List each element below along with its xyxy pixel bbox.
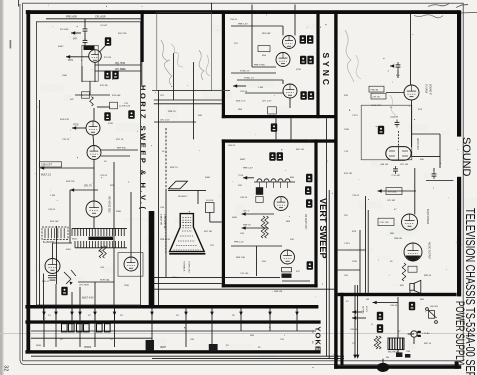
svg-text:R87 10: R87 10 [424, 343, 432, 345]
pencil scribble 2 [171, 44, 183, 67]
wire yoke bus b [31, 337, 152, 339]
wire left lane vertical [39, 100, 41, 305]
svg-text:R3 2.2M: R3 2.2M [118, 33, 126, 35]
svg-text:MULT: MULT [72, 239, 78, 241]
svg-text:560K: 560K [232, 217, 238, 219]
wire V12 grid [386, 92, 404, 94]
border horiz-sweep right edge upper [141, 10, 144, 62]
wire pwr arrow [373, 302, 387, 304]
svg-text:ON-OFF: ON-OFF [430, 306, 439, 308]
wire to C1 [84, 19, 86, 27]
svg-text:R68 1.8K: R68 1.8K [236, 257, 246, 259]
wire tick above border b [211, 3, 213, 13]
svg-text:PRE 2V: PRE 2V [168, 111, 176, 113]
svg-text:C2 047: C2 047 [100, 25, 108, 27]
label box CPL TN [371, 93, 386, 99]
shield V6 [118, 253, 143, 277]
pencil scribble 6 [356, 55, 361, 79]
svg-text:C35A CPT: C35A CPT [41, 164, 52, 167]
wire V3 cath [101, 155, 130, 157]
svg-text:POS: POS [74, 124, 79, 126]
svg-text:C72 5: C72 5 [352, 115, 359, 117]
wire agc row [426, 180, 453, 182]
svg-text:CPL HOR: CPL HOR [115, 63, 125, 65]
svg-text:CPL TN: CPL TN [373, 96, 381, 98]
wire B+ feed top lane [46, 18, 143, 20]
wire to S1 [282, 26, 284, 35]
wire yoke lower [43, 331, 45, 347]
svg-text:32: 32 [3, 365, 9, 371]
wire audio row [382, 190, 416, 192]
svg-text:C70 100: C70 100 [240, 273, 249, 275]
wire V5 plate feed [53, 242, 73, 244]
wire V3 plate [101, 149, 138, 151]
resistor R41 [377, 336, 381, 349]
wire tick above border c [294, 5, 296, 11]
pencil scribble 1 [161, 40, 172, 85]
svg-text:MULT 2.5: MULT 2.5 [41, 174, 52, 176]
wire out left [40, 167, 94, 169]
svg-text:REF 300: REF 300 [117, 147, 126, 149]
wire yoke drop [269, 309, 271, 332]
wire SR feed [397, 297, 399, 338]
wire C30 down [397, 70, 399, 78]
wire drop d [71, 292, 73, 305]
tube V11 vert output [281, 250, 295, 264]
resistor R2 [90, 97, 94, 107]
wire V1 grid left [66, 56, 89, 58]
HV cap plate [169, 181, 188, 189]
tube V3 horiz osc B [87, 146, 101, 160]
svg-text:4 CPL HOR 2W: 4 CPL HOR 2W [163, 214, 165, 229]
arrow pwr [373, 301, 377, 305]
arrow vert top [243, 176, 247, 180]
sound/power box right upper [457, 10, 461, 136]
svg-text:117VAC: 117VAC [362, 306, 365, 314]
wire tick above border a [251, 5, 253, 11]
svg-text:YOKE: YOKE [314, 327, 323, 352]
svg-text:150K: 150K [62, 75, 68, 77]
test point S6 [308, 91, 314, 99]
wire into yoke [71, 305, 73, 320]
selenium rectifier SR1 [388, 338, 404, 350]
vert box top [222, 139, 336, 142]
arrow yoke drop [70, 312, 74, 316]
wire yoke drop [240, 309, 242, 332]
arrow into AFC [71, 31, 75, 35]
wire bus B [152, 282, 222, 284]
wire drop c [79, 287, 81, 305]
test point S4 [307, 56, 313, 64]
svg-text:C85 40: C85 40 [390, 305, 398, 307]
vert output stack [282, 268, 292, 278]
capacitor C15 block [256, 187, 263, 195]
svg-text:SOUND: SOUND [460, 137, 472, 177]
wire arrow lead [71, 32, 81, 34]
capacitor C16 box [256, 196, 263, 202]
svg-text:PRE 2M: PRE 2M [274, 291, 282, 293]
arrow V1 grid [66, 55, 70, 59]
wire V12 down [411, 100, 413, 147]
tube V5 damper [45, 259, 60, 274]
wire S3 bottom [289, 98, 291, 108]
resistor R5 [99, 246, 103, 258]
svg-text:COIL 1SV: COIL 1SV [380, 222, 390, 224]
width coil L1 box [42, 227, 68, 239]
capacitor C31 [395, 120, 400, 128]
svg-text:HORIZ: HORIZ [84, 347, 92, 349]
wire vert row3 [231, 245, 282, 247]
tube V14 base shading [406, 256, 421, 261]
yoke box top [25, 320, 320, 323]
resistor R1 box [82, 92, 90, 98]
heater stack V5 [48, 276, 57, 281]
svg-text:LL22R C23: LL22R C23 [119, 106, 131, 108]
tube V10 vert osc [274, 197, 288, 211]
pencil scribble 3 [199, 50, 204, 80]
svg-text:6W4: 6W4 [66, 249, 71, 251]
test point M6 [61, 287, 67, 295]
power transformer T2 [377, 363, 389, 372]
svg-text:LTC AC: LTC AC [423, 332, 431, 335]
wire horiz-sweep boundary link [141, 62, 142, 85]
ratio detector transformer T3 [386, 147, 411, 161]
tube V6 HV rectifier [124, 257, 138, 271]
border left-region bottom [25, 305, 318, 309]
picture tube funnel [169, 214, 205, 254]
svg-text:R82 56: R82 56 [424, 275, 432, 277]
wire right lane vertical b [328, 190, 330, 359]
svg-text:CPL 4: CPL 4 [172, 277, 179, 279]
arrow pwr2 [352, 316, 356, 320]
wire drop e [43, 274, 45, 306]
svg-text:220K: 220K [124, 285, 130, 287]
test point S5 [300, 91, 306, 99]
arrow audio row [378, 189, 382, 193]
test point M3 [112, 71, 118, 79]
wire sync vertical b [294, 14, 296, 36]
wire S row3 [237, 79, 283, 81]
svg-text:470K: 470K [296, 69, 302, 71]
vert box right [314, 139, 317, 287]
wire interlock left [408, 333, 414, 335]
resistor R6 [103, 246, 107, 258]
junction bus a [337, 355, 339, 357]
wire yoke lower [114, 331, 116, 347]
svg-text:V1 6AU6: V1 6AU6 [425, 84, 428, 94]
wire S arrow [233, 85, 246, 87]
wire yoke drop [71, 309, 73, 332]
wire yoke drop [185, 309, 187, 332]
svg-text:CPL 1M: CPL 1M [400, 164, 408, 166]
arrow V2 grid [72, 126, 76, 130]
wire audio lead [378, 190, 383, 192]
svg-text:C63 25: C63 25 [240, 197, 248, 199]
svg-text:C31 25: C31 25 [62, 139, 70, 141]
svg-text:60 CY: 60 CY [365, 306, 367, 313]
svg-text:R31 47: R31 47 [42, 281, 50, 283]
capacitor C87 block [396, 352, 402, 357]
svg-text:470K: 470K [108, 123, 114, 125]
wire yoke lower [79, 331, 81, 347]
yoke connector pin 4 [84, 324, 90, 332]
svg-text:HOR CAL: HOR CAL [100, 279, 111, 282]
wire sync feed b [154, 103, 222, 105]
wire exit left a [338, 249, 366, 251]
wire V1 down a [81, 66, 83, 82]
junction bus b [337, 358, 339, 360]
svg-text:DEFL: DEFL [36, 345, 42, 347]
wire spk gnd [409, 290, 411, 296]
wire into yoke [55, 305, 57, 320]
test point T4 [305, 186, 311, 194]
svg-text:CPL V: CPL V [243, 211, 250, 213]
svg-text:VR VERT OUT: VR VERT OUT [304, 214, 306, 230]
transformer T1 core [89, 237, 114, 240]
wire horiz box vertical c [113, 162, 115, 282]
wire pwr arrow2 [352, 317, 366, 319]
wire SR down [397, 350, 399, 353]
svg-text:C79 5: C79 5 [344, 243, 351, 245]
svg-text:R17 1K: R17 1K [116, 139, 124, 141]
tube V1 horiz AFC [89, 50, 102, 63]
arrow out left [40, 166, 44, 170]
vert box bottom [222, 284, 318, 287]
wire drop b [94, 282, 96, 305]
transformer T1 primary winding [72, 228, 127, 236]
svg-text:27K: 27K [210, 245, 214, 247]
resistor R35 [402, 263, 406, 281]
wire into yoke [43, 305, 45, 320]
svg-text:PRE HOR: PRE HOR [66, 16, 77, 19]
wire gap h1 [154, 121, 196, 123]
power supply divider [338, 293, 457, 296]
tube V2 horiz osc A [86, 121, 100, 135]
svg-text:R14 8.2K: R14 8.2K [60, 119, 70, 121]
wire V1 to test point [100, 46, 106, 52]
wire disc grid [70, 189, 98, 191]
resistor R36 box [408, 266, 417, 272]
wire C32 top [433, 168, 435, 171]
wire funnel left [165, 216, 167, 254]
wire yoke lower [211, 331, 213, 347]
svg-text:PRE 1.5V: PRE 1.5V [243, 168, 253, 170]
wire vert bottom [282, 280, 310, 282]
sync box bottom [222, 115, 336, 118]
resistor R40 [374, 336, 378, 349]
wire V1 down b [94, 71, 96, 82]
svg-text:MULT 6: MULT 6 [170, 167, 178, 169]
wire HV drop [197, 190, 199, 204]
test point S1 [300, 35, 306, 43]
wire yoke drop [151, 309, 153, 332]
wire horiz box vertical [69, 190, 71, 243]
wire V4 to T1 [93, 217, 95, 228]
svg-text:R52 68K: R52 68K [262, 33, 271, 35]
tube V14 audio output [404, 243, 422, 261]
speaker SP1 [410, 280, 421, 293]
svg-text:V8 HORIZ OSC: V8 HORIZ OSC [108, 196, 111, 213]
sound/power box left [334, 10, 337, 368]
wire S row1 [252, 66, 276, 68]
wire B+ a [365, 196, 367, 293]
svg-text:HORIZ OUT: HORIZ OUT [188, 262, 190, 275]
svg-text:CPL TV: CPL TV [84, 185, 92, 187]
handwriting mark 3 [456, 5, 468, 8]
svg-text:6SN7: 6SN7 [240, 159, 246, 161]
vert box left [222, 139, 225, 287]
arrow vert row2 [242, 226, 246, 230]
yoke coil L2 [146, 340, 218, 352]
capacitor C3 box [110, 102, 118, 109]
arrow yoke drop [42, 312, 46, 316]
power supply inner left [340, 293, 343, 365]
wire C1 to C2 [84, 33, 86, 40]
test point S3 [300, 56, 306, 64]
wire yoke drop [94, 309, 96, 332]
arrow pwr3 [352, 310, 356, 314]
wire yoke bus [31, 330, 316, 332]
pencil scribble 4 [206, 55, 210, 76]
svg-text:FOCUS: FOCUS [206, 200, 214, 202]
wire to V5 [52, 243, 54, 258]
svg-text:PRE 1.5V: PRE 1.5V [234, 242, 244, 244]
wire into yoke [114, 305, 116, 320]
arrow disc [70, 188, 74, 192]
wire S3 top [282, 80, 284, 84]
tube V4 horiz output [86, 201, 102, 217]
wire drop a [113, 282, 115, 305]
arrow sync left [233, 84, 237, 88]
sound/power box bottom [334, 365, 461, 369]
wire into yoke [94, 305, 96, 320]
arrow yoke drop [54, 312, 58, 316]
handwriting mark 2 [414, 15, 443, 18]
yoke connector pin 2 [69, 324, 75, 332]
wire to V13 [414, 168, 416, 215]
arrow yoke drop [184, 312, 188, 316]
wire to C3 [97, 106, 110, 108]
wire yoke drop [211, 309, 213, 332]
transformer T1 secondary winding [75, 241, 127, 248]
svg-text:500K: 500K [205, 177, 211, 179]
svg-text:270K: 270K [352, 261, 358, 263]
wire V3 down [93, 160, 95, 168]
wire yoke drop [43, 309, 45, 332]
wire gap vertical b [193, 62, 195, 139]
svg-text:PRE 1.5V: PRE 1.5V [238, 23, 248, 25]
wire V2 grid [72, 127, 86, 129]
wire bus A [152, 276, 280, 278]
yoke connector pin 5 [97, 324, 103, 332]
wire C30 left [390, 65, 394, 67]
svg-text:COL 4M: COL 4M [392, 175, 400, 177]
svg-text:AUDIO OUTPUT: AUDIO OUTPUT [428, 242, 431, 260]
wire det out [411, 155, 440, 157]
wire sound B+ vertical [410, 14, 412, 85]
wire B+ c [359, 230, 361, 293]
wire bottom bus a [31, 355, 344, 357]
focus resistor box [205, 203, 214, 213]
label plate PRE HOR [84, 46, 95, 50]
wire sync vertical a [251, 14, 253, 67]
wire det dashed [398, 131, 400, 147]
sync box left [222, 10, 225, 118]
svg-text:FLYBACK: FLYBACK [183, 262, 186, 272]
capacitor C2 [83, 38, 88, 46]
wire T2 lead [382, 359, 384, 363]
svg-text:POS: POS [239, 175, 244, 177]
wire gap vertical dash [165, 128, 167, 190]
wire sync feed a [154, 99, 222, 101]
svg-text:CPL HOR: CPL HOR [79, 285, 89, 287]
svg-text:CPL 2.5V: CPL 2.5V [160, 119, 170, 121]
svg-text:6SN7: 6SN7 [58, 46, 64, 48]
wire drop f [55, 284, 57, 305]
capacitor C89 block [405, 354, 410, 358]
svg-text:PRE 3N: PRE 3N [371, 89, 379, 91]
svg-text:SYNC 2V: SYNC 2V [240, 70, 250, 72]
test point P1 [377, 312, 383, 320]
wire sync-vert link a [275, 118, 277, 139]
svg-text:C26 05: C26 05 [48, 209, 56, 211]
svg-text:R11 1M: R11 1M [100, 85, 108, 87]
label box C35A [40, 162, 62, 167]
svg-text:C60 02: C60 02 [228, 145, 236, 147]
svg-text:10K: 10K [290, 239, 294, 241]
wire horiz box vertical d [130, 192, 132, 248]
test point S2 [307, 35, 313, 43]
test point T5 [306, 199, 312, 207]
sync box right [316, 10, 319, 118]
arrow yoke drop [93, 312, 97, 316]
wire V1 below [94, 62, 96, 71]
svg-text:VERT: VERT [160, 347, 167, 349]
yoke connector pin 6 [105, 324, 111, 332]
transistor Q1 [64, 270, 76, 285]
test point T3 [306, 174, 312, 182]
arrow vert row1 [242, 212, 246, 216]
tube V13 audio driver [402, 214, 418, 230]
svg-text:R47 1M: R47 1M [204, 231, 212, 233]
svg-text:R1 100K: R1 100K [60, 29, 69, 31]
svg-text:120K: 120K [344, 129, 350, 131]
wire gap vertical a [173, 53, 175, 100]
wire vert arrow top [243, 177, 254, 179]
test point M2 [104, 71, 110, 79]
svg-text:R13 56K: R13 56K [112, 95, 121, 97]
wire HV top [168, 189, 206, 191]
svg-text:R61 1M: R61 1M [296, 149, 304, 151]
svg-text:SYNC 1.5: SYNC 1.5 [244, 77, 255, 79]
test point T1 [269, 152, 275, 160]
yoke box bottom [25, 350, 320, 353]
horiz box thin outline [36, 22, 140, 305]
svg-text:R75 1M: R75 1M [344, 173, 352, 175]
svg-text:CPL HOR: CPL HOR [95, 16, 106, 19]
arrow AC a [353, 355, 357, 359]
test point M5 [104, 112, 110, 120]
handwriting mark [428, 4, 449, 7]
arrow C30 [390, 64, 394, 68]
svg-text:HV RECT: HV RECT [178, 196, 188, 198]
wire vert row2 [242, 227, 268, 229]
wire vert row1 [242, 213, 275, 215]
pencil scribble 7 [390, 95, 396, 115]
test point P2 [377, 324, 383, 332]
wire V1 plate to edge [95, 64, 141, 66]
resistor R20 [261, 216, 265, 238]
